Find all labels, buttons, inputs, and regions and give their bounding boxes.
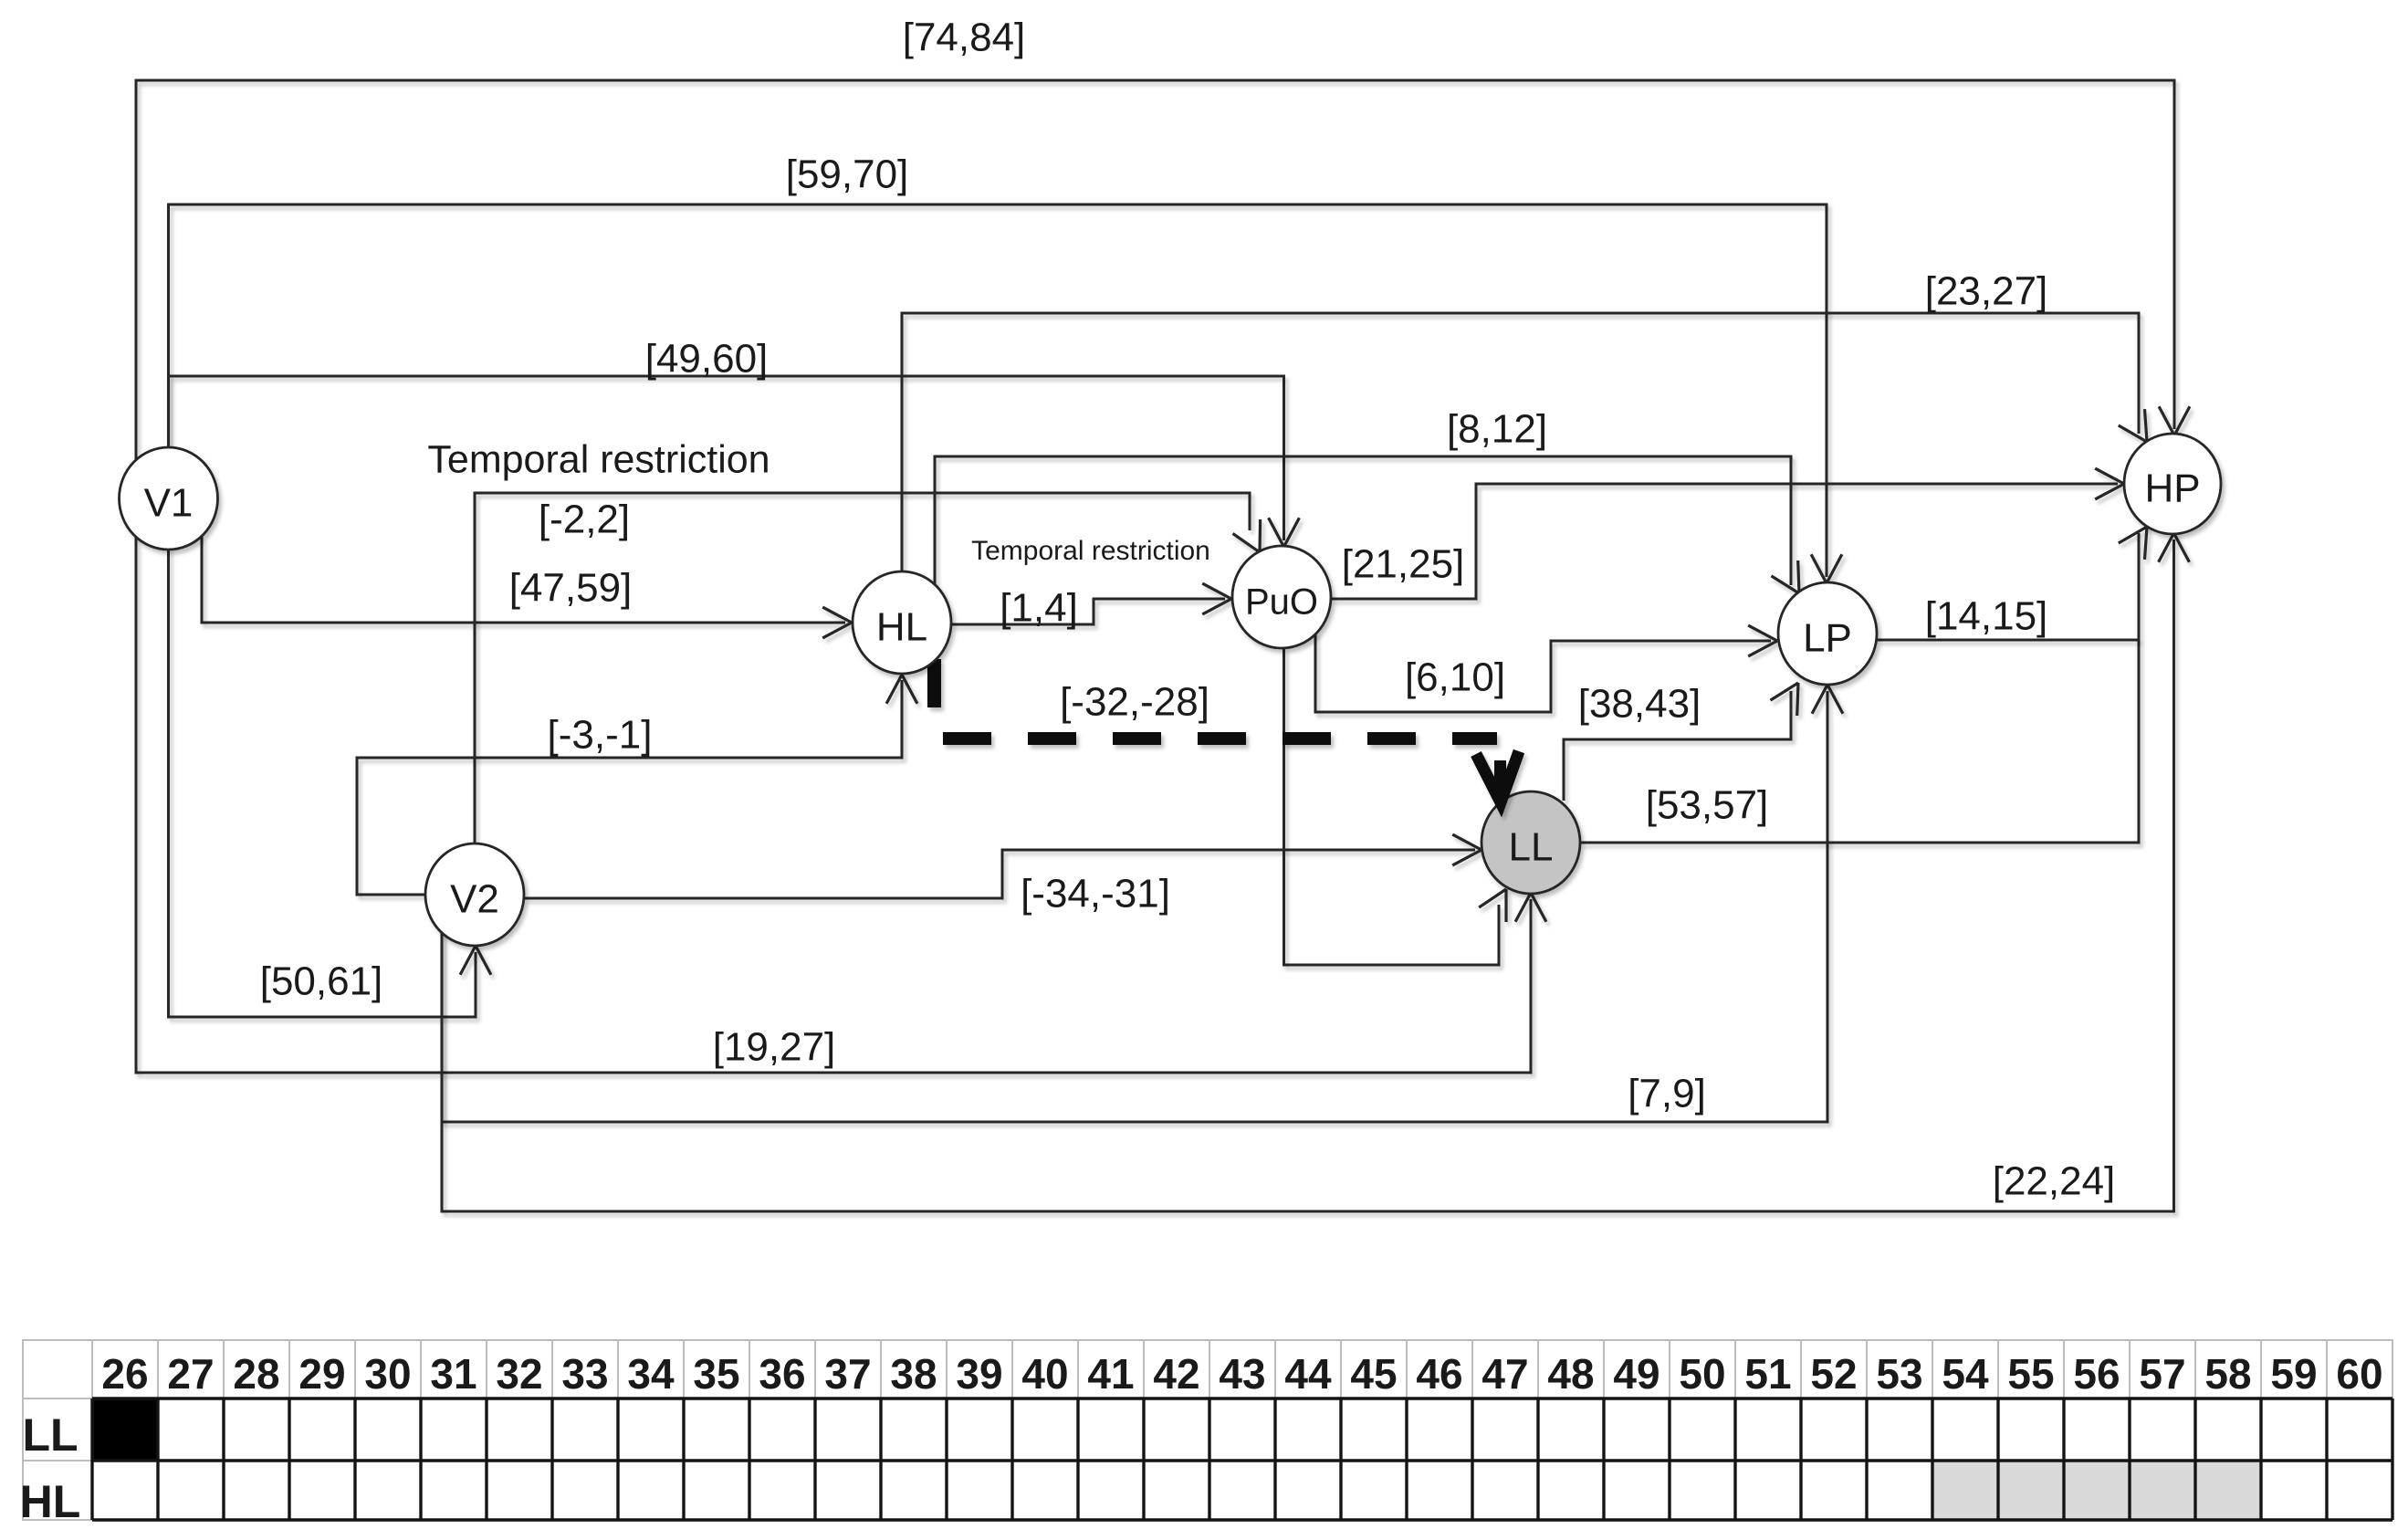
svg-text:60: 60 [2336,1350,2382,1398]
edge V1-PuO arrowhead into PuO top [1269,518,1300,547]
svg-text:[8,12]: [8,12] [1447,407,1547,452]
edge LL-LP diagonal arrowhead into LP bottom-left [1771,683,1799,716]
node LL circle (grey) [1481,791,1580,894]
label [59,70] [786,152,909,197]
edge LL-HP [53,57] wire [1580,533,2139,843]
svg-text:[23,27]: [23,27] [1925,269,2048,314]
table grey cells HL columns 54-58 [1932,1461,2261,1520]
svg-text:32: 32 [496,1350,542,1398]
label [-34,-31] [1021,872,1170,917]
svg-text:HL: HL [876,605,927,650]
svg-text:[38,43]: [38,43] [1578,682,1701,727]
label [1,4] [1000,586,1078,631]
label [50,61] [260,959,383,1004]
svg-text:HP: HP [2144,466,2200,511]
svg-text:38: 38 [890,1350,937,1398]
svg-text:[59,70]: [59,70] [786,152,909,197]
svg-text:[47,59]: [47,59] [509,566,633,611]
node HL circle [853,571,951,674]
edge V2-HP arrowhead into HP bottom [2159,533,2190,562]
svg-text:28: 28 [233,1350,279,1398]
svg-text:54: 54 [1942,1350,1989,1398]
dashed edge HL-LL thick arrowhead into LL top [1476,751,1519,802]
node PuO circle [1232,546,1331,648]
label Temporal restriction (HL-PuO) [971,536,1210,566]
svg-text:[14,15]: [14,15] [1925,594,2048,639]
node HP label [2144,466,2200,511]
svg-text:42: 42 [1153,1350,1199,1398]
svg-text:[53,57]: [53,57] [1646,783,1769,828]
svg-text:LL: LL [1509,825,1554,870]
svg-text:[22,24]: [22,24] [1993,1159,2116,1204]
edge V2-HL arrowhead into HL bottom [886,675,917,704]
svg-text:44: 44 [1284,1350,1332,1398]
edge V1-LL [19,27] wire [136,536,1531,1073]
edge LP-HP [14,15] wire [1877,639,2139,642]
node LP label [1803,616,1852,661]
table row label LL [22,1409,78,1461]
svg-text:29: 29 [298,1350,345,1398]
svg-text:[74,84]: [74,84] [903,16,1026,60]
edge V2-PuO diagonal arrowhead into PuO top-left [1233,519,1261,552]
table dark body grid [92,1399,2392,1520]
node V1 circle [120,447,218,550]
svg-text:PuO: PuO [1245,582,1318,623]
node V2 circle [425,843,524,946]
svg-text:[50,61]: [50,61] [260,959,383,1004]
svg-text:[-3,-1]: [-3,-1] [548,713,653,758]
node V1 label [144,481,194,526]
dashed edge HL-LL start bar [927,659,941,707]
edge PuO-LP arrowhead into LP left [1748,625,1777,656]
svg-text:37: 37 [824,1350,871,1398]
svg-text:58: 58 [2204,1350,2251,1398]
svg-text:[49,60]: [49,60] [645,337,769,382]
svg-text:[19,27]: [19,27] [713,1025,836,1070]
edge HL-PuO [1,4] wire [951,599,1225,624]
edge PuO-LP [6,10] wire [1315,632,1771,712]
svg-text:49: 49 [1613,1350,1659,1398]
label [74,84] [903,16,1026,60]
svg-text:36: 36 [759,1350,805,1398]
edge V2-HP [22,24] wire [442,540,2174,1211]
node HL label [876,605,927,650]
svg-text:39: 39 [956,1350,1002,1398]
edge HL-HP diagonal arrowhead into HP top-left [2119,409,2147,442]
label [23,27] [1925,269,2048,314]
svg-text:[-2,2]: [-2,2] [539,498,630,542]
svg-text:[6,10]: [6,10] [1405,655,1505,700]
node V2 label [450,877,499,922]
svg-text:[21,25]: [21,25] [1342,542,1465,587]
svg-text:V1: V1 [144,481,194,526]
table header numbers 26-60 [101,1350,2382,1398]
edge V1-LP [59,70] wire [169,204,1827,577]
label [14,15] [1925,594,2048,639]
edge V1-V2 arrowhead into V2 bottom [460,946,491,975]
edge V1-V2 [50,61] wire [169,547,476,1017]
svg-text:53: 53 [1876,1350,1922,1398]
edge PuO-HP arrowhead into HP left [2095,468,2124,499]
label [22,24] [1993,1159,2116,1204]
node HP circle [2124,434,2221,534]
label [7,9] [1628,1072,1706,1116]
svg-text:48: 48 [1547,1350,1594,1398]
svg-text:30: 30 [364,1350,411,1398]
svg-text:51: 51 [1744,1350,1791,1398]
svg-text:[-34,-31]: [-34,-31] [1021,872,1170,917]
edge LL/LP-HP arrowhead into HP bottom-left [2119,527,2147,560]
svg-text:47: 47 [1481,1350,1528,1398]
edge V1-HL [47,59] wire [202,537,845,623]
svg-text:52: 52 [1810,1350,1857,1398]
svg-text:45: 45 [1350,1350,1397,1398]
svg-text:56: 56 [2073,1350,2120,1398]
label [21,25] [1342,542,1465,587]
svg-text:27: 27 [167,1350,214,1398]
node PuO label [1245,582,1318,623]
svg-text:26: 26 [101,1350,148,1398]
edge PuO-HP [21,25] wire [1331,484,2118,599]
edge HL-LP diagonal arrowhead into LP top-left [1772,560,1800,593]
svg-text:33: 33 [561,1350,608,1398]
svg-text:41: 41 [1087,1350,1134,1398]
edge HL-PuO arrowhead into PuO left [1202,583,1231,614]
svg-text:55: 55 [2007,1350,2054,1398]
edge PuO-LL wire [1284,647,1500,965]
label [19,27] [713,1025,836,1070]
edge V1-HL arrowhead into HL left [822,607,852,638]
svg-text:Temporal restriction: Temporal restriction [971,536,1210,566]
svg-text:34: 34 [627,1350,675,1398]
svg-text:31: 31 [430,1350,476,1398]
edge V1-PuO [49,60] wire [169,376,1284,540]
edge LL-LP [38,43] wire [1564,691,1791,801]
svg-text:[1,4]: [1,4] [1000,586,1078,631]
edge V2-LP arrowhead into LP bottom [1812,685,1843,714]
label [-2,2] [539,498,630,542]
edge V1-HP [74,84] wire [136,80,2174,461]
svg-text:[-32,-28]: [-32,-28] [1060,680,1209,725]
label [53,57] [1646,783,1769,828]
table black cell LL column 26 [92,1399,158,1461]
node LL label [1509,825,1554,870]
edge PuO-LL diagonal arrowhead into LL bottom-left [1479,889,1506,922]
edge V1-LP arrowhead into LP top [1811,554,1842,583]
edge V2-LP [7,9] wire [442,691,1827,1122]
node LP circle [1778,582,1877,685]
svg-text:57: 57 [2139,1350,2185,1398]
label [47,59] [509,566,633,611]
svg-text:LP: LP [1803,616,1852,661]
label [38,43] [1578,682,1701,727]
label [49,60] [645,337,769,382]
table header/label light grid [23,1340,2392,1520]
edge V2-PuO [-2,2] wire [475,493,1250,845]
edge HL-LP [8,12] wire [935,456,1791,585]
svg-text:[7,9]: [7,9] [1628,1072,1706,1116]
label [-32,-28] [1060,680,1209,725]
edge V2-LL [-34,-31] wire [524,850,1475,898]
edge HL-HP [23,27] wire [902,313,2139,572]
dashed edge HL-LL [-32,-28] dashes [943,732,1497,745]
svg-text:35: 35 [693,1350,739,1398]
svg-text:Temporal restriction: Temporal restriction [427,437,770,481]
svg-text:50: 50 [1679,1350,1725,1398]
table row label HL [20,1476,81,1527]
svg-text:46: 46 [1416,1350,1462,1398]
edge V1-HP arrowhead into HP top [2159,406,2190,435]
edge V2-LL arrowhead into LL left [1452,834,1481,865]
label [6,10] [1405,655,1505,700]
edge V2-HL [-3,-1] wire [357,680,902,895]
edge V1-LL arrowhead into LL bottom [1515,893,1546,922]
svg-text:59: 59 [2270,1350,2317,1398]
label [8,12] [1447,407,1547,452]
svg-text:HL: HL [20,1476,81,1527]
svg-text:LL: LL [22,1409,78,1461]
svg-text:43: 43 [1219,1350,1265,1398]
svg-text:40: 40 [1021,1350,1068,1398]
label Temporal restriction (V2-PuO) [427,437,770,481]
svg-text:V2: V2 [450,877,499,922]
label [-3,-1] [548,713,653,758]
